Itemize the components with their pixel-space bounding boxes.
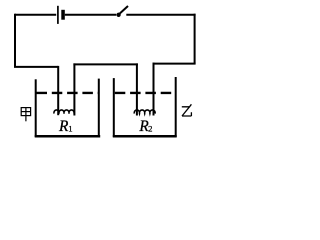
wire battery-to-switch segment (65, 14, 116, 16)
beaker 乙 bottom (113, 135, 177, 138)
wire switch-to-corner segment (126, 14, 195, 16)
beaker 乙 right wall (175, 77, 177, 137)
label 乙 (drawn glyph) (182, 104, 192, 116)
wire left vertical (14, 14, 16, 67)
beaker 乙 left wall (113, 78, 115, 137)
beaker 乙 water level dashed (115, 92, 177, 94)
battery B1 short thick plate (61, 10, 65, 20)
wire R2 right lead (153, 63, 155, 116)
wire right horizontal R2-to-right-wire (153, 63, 196, 65)
wire R1 right lead (73, 63, 75, 115)
switch S contact circle (116, 13, 120, 17)
resistor R1 heating coil (54, 110, 74, 114)
wire R1 left lead (57, 66, 59, 115)
wire left horizontal to R1 (14, 66, 58, 68)
wire middle horizontal R1-to-R2 (73, 63, 137, 65)
beaker 甲 left wall (35, 79, 37, 137)
label 甲 (drawn glyph) (21, 108, 30, 122)
switch S lever arm (120, 6, 128, 13)
wire R2 left lead (136, 63, 138, 115)
beaker 甲 bottom (35, 135, 101, 138)
battery B1 long plate (57, 6, 59, 24)
resistor R2 heating coil (134, 110, 155, 114)
beaker 甲 water level dashed (37, 92, 99, 94)
wire top-left segment (15, 14, 56, 16)
wire right vertical (194, 14, 196, 64)
svg-text:1: 1 (68, 124, 72, 134)
beaker 甲 right wall (98, 79, 100, 137)
svg-text:2: 2 (148, 124, 152, 134)
